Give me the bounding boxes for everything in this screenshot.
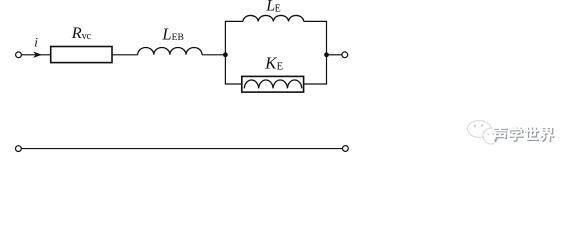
svg-text:EB: EB xyxy=(172,32,184,43)
wire: bottom return conductor xyxy=(21,148,342,150)
damped inductor KE box xyxy=(242,76,304,92)
terminal: bottom-right xyxy=(343,146,349,152)
label LE xyxy=(265,0,281,15)
terminal: bottom-left xyxy=(16,146,22,152)
watermark text 声学世界 xyxy=(492,126,555,142)
wire: top branch left segment xyxy=(225,20,243,22)
svg-text:E: E xyxy=(277,62,283,73)
wire: bottom branch right segment xyxy=(304,83,328,85)
svg-text:R: R xyxy=(71,23,82,42)
node A (junction dot) xyxy=(223,52,228,57)
wire: LEB to node A xyxy=(202,54,225,56)
terminal: top-left input xyxy=(16,52,22,58)
label LEB xyxy=(161,24,183,43)
wire: resistor to LEB xyxy=(112,54,138,56)
svg-text:vc: vc xyxy=(82,31,92,42)
label KE xyxy=(264,54,283,73)
wire: parallel loop right vertical xyxy=(326,21,328,84)
wire: top branch right segment xyxy=(304,20,327,22)
wire: parallel loop left vertical xyxy=(224,21,226,84)
resistor Rvc xyxy=(51,47,112,63)
node B (junction dot) xyxy=(324,52,329,57)
wire: node B to output terminal xyxy=(327,54,342,56)
inductor winding inside KE xyxy=(244,80,302,88)
wire: input lead xyxy=(21,54,50,56)
watermark icon (chat bubbles) xyxy=(467,121,498,144)
label Rvc xyxy=(71,23,92,42)
svg-text:K: K xyxy=(264,54,277,73)
current arrow xyxy=(33,52,42,58)
svg-text:L: L xyxy=(161,24,171,43)
wire: bottom branch left segment xyxy=(225,83,242,85)
inductor LE xyxy=(243,15,304,21)
svg-text:i: i xyxy=(34,35,38,50)
inductor LEB xyxy=(138,48,202,55)
svg-text:E: E xyxy=(275,3,281,14)
terminal: top-right output xyxy=(342,52,348,58)
